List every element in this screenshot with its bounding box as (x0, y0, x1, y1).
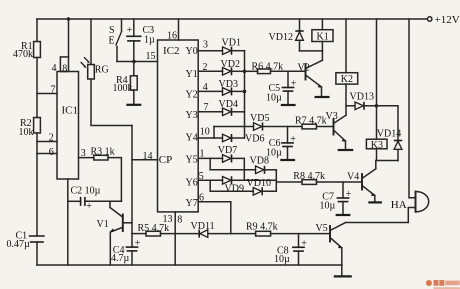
svg-text:VD3: VD3 (219, 79, 238, 90)
svg-text:V3: V3 (326, 111, 338, 122)
svg-text:10k: 10k (19, 127, 34, 138)
ground V3 emitter (338, 149, 354, 151)
svg-text:CP: CP (159, 154, 172, 166)
wire VD6 to bus (232, 137, 245, 139)
svg-text:100k: 100k (113, 83, 133, 94)
svg-text:4.7µ: 4.7µ (111, 253, 130, 264)
wire CP pin14 (132, 159, 158, 161)
+12V terminal (428, 17, 432, 21)
capacitor C8 (274, 234, 307, 265)
capacitor C1 (7, 231, 45, 251)
svg-text:R7 4.7k: R7 4.7k (295, 115, 327, 126)
wire CP column (131, 126, 133, 234)
svg-text:470k: 470k (13, 49, 33, 60)
wire R5 to VD11 (161, 233, 200, 235)
svg-text:6: 6 (49, 147, 54, 158)
resistor R6 (245, 61, 284, 73)
wire junction to K3 (376, 106, 378, 139)
svg-text:+: + (127, 25, 133, 36)
svg-text:16: 16 (167, 31, 177, 42)
svg-text:+: + (346, 189, 352, 200)
svg-text:Y5: Y5 (186, 154, 198, 165)
diode VD11 (191, 221, 215, 238)
transistor V2 (298, 60, 323, 97)
wire VD10 to bus2 (262, 190, 276, 192)
diode VD1 (222, 38, 241, 55)
transistor V1 (97, 201, 123, 265)
svg-text:4: 4 (52, 63, 57, 74)
wire Y4 jog up (213, 127, 215, 139)
svg-text:VD7: VD7 (218, 145, 237, 156)
svg-text:0.47µ: 0.47µ (7, 239, 31, 250)
svg-text:VD2: VD2 (221, 59, 240, 70)
wire V3 collector to K2 (345, 84, 347, 115)
photoresistor RG (88, 19, 109, 79)
node bus Y2 (243, 90, 247, 94)
IC2 box (158, 40, 199, 212)
wire VD9 to bus2 (232, 179, 277, 181)
wire VD11 to R9 (208, 233, 256, 235)
resistor R8 (276, 171, 325, 185)
svg-text:VD4: VD4 (219, 99, 238, 110)
svg-text:VD10: VD10 (247, 178, 271, 189)
svg-text:V2: V2 (298, 62, 310, 73)
wire VD8 row (210, 169, 255, 171)
ground R4 (126, 104, 141, 106)
svg-text:Y1: Y1 (186, 69, 198, 80)
diode VD7 (218, 145, 237, 162)
svg-text:VD14: VD14 (377, 129, 401, 140)
ground C5 (281, 104, 296, 106)
wire Y4 row (198, 137, 222, 139)
wire +12V top rail (37, 18, 427, 20)
wire Y0 row (198, 50, 222, 52)
wire matrix bus2 (275, 170, 277, 192)
ground V4 emitter (368, 201, 382, 203)
wire R8 to V4 base (317, 181, 363, 183)
transistor V4 (347, 169, 376, 202)
svg-text:S: S (109, 25, 115, 36)
node bus Y1 (243, 70, 247, 74)
diode VD9 (223, 176, 244, 194)
resistor R3 (79, 147, 115, 161)
wire R9 to V5 base (271, 233, 330, 235)
wire Y5 row (198, 157, 222, 159)
wire R6 to V2 base (271, 70, 306, 72)
wire junction to rail (376, 19, 378, 106)
wire K1-VD12 bottom (300, 50, 323, 52)
wire Y2 row (198, 90, 222, 92)
wire matrix bus (244, 51, 246, 138)
svg-text:+: + (290, 134, 296, 145)
wire Y5 jog down (209, 158, 211, 169)
wire C1 to bottom rail (36, 242, 38, 265)
diode VD4 (219, 99, 238, 116)
svg-text:R9 4.7k: R9 4.7k (246, 222, 278, 233)
svg-text:+12V: +12V (435, 14, 460, 26)
svg-text:8: 8 (62, 63, 67, 74)
svg-text:V1: V1 (97, 219, 109, 230)
svg-text:3: 3 (203, 39, 208, 50)
watermark logo (426, 280, 460, 289)
svg-text:Y6: Y6 (186, 178, 198, 189)
wire R3 to V1 collector node (108, 158, 121, 202)
wire switch/C3 node to IC2 pin15 (117, 61, 158, 63)
relay K1 (312, 19, 333, 51)
diode VD3 (219, 79, 238, 95)
speaker HA (391, 192, 429, 212)
wire IC1 pins 4-8 to rail (68, 19, 70, 57)
light arrow 2 (81, 62, 87, 68)
wire VD1 to bus (232, 50, 245, 52)
svg-text:VD12: VD12 (269, 32, 293, 43)
svg-text:E: E (109, 36, 115, 47)
svg-text:VD11: VD11 (191, 221, 215, 232)
svg-text:8: 8 (177, 214, 182, 225)
capacitor C6 (266, 127, 296, 160)
svg-text:VD5: VD5 (250, 113, 269, 124)
svg-text:RG: RG (95, 65, 109, 76)
wire VD10 row (210, 190, 253, 192)
wire R2 down to C1 (36, 133, 38, 236)
wire IC1 pin7 (37, 93, 57, 95)
svg-text:VD1: VD1 (222, 38, 241, 49)
wire IC1 pin2 (37, 141, 57, 143)
IC1 box (57, 57, 79, 179)
ground C7 (336, 214, 351, 216)
svg-text:+: + (135, 238, 141, 249)
svg-text:VD6: VD6 (245, 134, 264, 145)
svg-text:+: + (301, 238, 307, 249)
resistor R2 (19, 118, 41, 139)
capacitor C4 (111, 234, 141, 265)
svg-text:R3 1k: R3 1k (91, 147, 115, 158)
diode VD10 (247, 178, 271, 195)
transistor V5 (316, 223, 346, 277)
svg-text:+: + (86, 201, 92, 212)
resistor R4 (113, 62, 138, 105)
svg-text:Y2: Y2 (186, 90, 198, 101)
light arrow 1 (84, 57, 90, 63)
ground V2 emitter (315, 96, 330, 98)
wire Y1 row (198, 70, 222, 72)
transistor V3 (326, 111, 347, 150)
capacitor C7 (320, 182, 352, 215)
capacitor C2 (68, 186, 122, 212)
switch S (109, 19, 122, 62)
svg-text:K1: K1 (317, 31, 329, 42)
svg-text:Y7: Y7 (186, 198, 198, 209)
svg-text:7: 7 (51, 84, 56, 95)
svg-text:10µ: 10µ (266, 92, 282, 103)
wire IC1 pin6 (37, 153, 57, 155)
svg-text:15: 15 (146, 51, 156, 62)
diode VD12 (269, 19, 304, 51)
capacitor C3 (126, 19, 155, 62)
wire R1 to R2 (36, 58, 38, 118)
svg-text:Y0: Y0 (186, 46, 198, 57)
svg-text:+: + (291, 79, 297, 90)
resistor R5 (132, 223, 169, 236)
svg-text:10µ: 10µ (274, 254, 290, 265)
svg-text:IC2: IC2 (163, 45, 180, 57)
wire VD8 to bus2 (265, 169, 277, 171)
svg-text:Y3: Y3 (186, 110, 198, 121)
diode VD13 (346, 92, 377, 110)
wire Y6 jog down (209, 180, 211, 191)
diode VD14 (377, 129, 402, 161)
svg-text:2: 2 (49, 133, 54, 144)
wire VD5 to R7 (263, 126, 303, 128)
diode VD5 (250, 113, 269, 131)
wire V2 collector (321, 51, 323, 60)
ground V5 emitter (334, 275, 352, 277)
wire Y3 row (198, 111, 222, 113)
diode VD6 (223, 134, 265, 145)
wire IC1 pin1 to bottom rail (67, 179, 69, 265)
resistor R9 (246, 222, 278, 237)
wire V5 collector to speaker (346, 208, 416, 223)
diode VD8 (250, 156, 269, 174)
wire IC2 pins 13-8 to bottom rail (174, 212, 176, 265)
resistor R7 (295, 115, 327, 129)
svg-text:VD13: VD13 (350, 92, 374, 103)
svg-text:VD9: VD9 (225, 184, 244, 195)
wire VD5 row (214, 126, 254, 128)
wire R7 to V3 base (317, 126, 334, 128)
wire K3-VD14 bottom (377, 149, 399, 161)
svg-text:R8 4.7k: R8 4.7k (293, 171, 325, 182)
wire IC2 pin16 to rail (178, 19, 180, 40)
wire RG bottom to CP column (91, 79, 132, 126)
diode VD2 (221, 59, 240, 76)
svg-text:1µ: 1µ (144, 35, 155, 46)
svg-text:V5: V5 (316, 223, 328, 234)
wire bottom rail (37, 264, 342, 266)
relay K3 (366, 139, 387, 151)
svg-text:10: 10 (200, 126, 210, 137)
wire Y6 row (198, 179, 222, 181)
wire V1 base (123, 222, 132, 224)
wire V4 collector (375, 161, 377, 169)
wire VD2 to bus (232, 70, 245, 72)
wire Y7 row down to VD11 row (198, 202, 231, 234)
node rail junction at IC1 supply (67, 17, 70, 20)
svg-text:V4: V4 (347, 172, 359, 183)
relay K2 (336, 19, 358, 85)
svg-text:HA: HA (391, 199, 407, 211)
svg-text:10µ: 10µ (320, 200, 336, 211)
node VD13 cathode junction (375, 104, 379, 108)
wire VD3 to bus (232, 90, 245, 92)
wire VD4 to bus (232, 111, 245, 113)
wire VD7 to Y6 row (232, 158, 245, 180)
resistor R1 (13, 19, 40, 60)
svg-text:10µ: 10µ (266, 147, 282, 158)
svg-text:C2 10µ: C2 10µ (71, 186, 101, 197)
svg-text:R5 4.7k: R5 4.7k (138, 223, 170, 234)
node switch-C3-R4 junction (132, 60, 136, 64)
svg-text:Y4: Y4 (186, 133, 198, 144)
capacitor C5 (266, 71, 297, 104)
wire speaker rail (409, 19, 416, 198)
wire junction to VD14 (377, 106, 399, 141)
svg-text:K2: K2 (341, 74, 353, 85)
svg-text:IC1: IC1 (62, 105, 79, 117)
ground C6 (280, 159, 295, 161)
